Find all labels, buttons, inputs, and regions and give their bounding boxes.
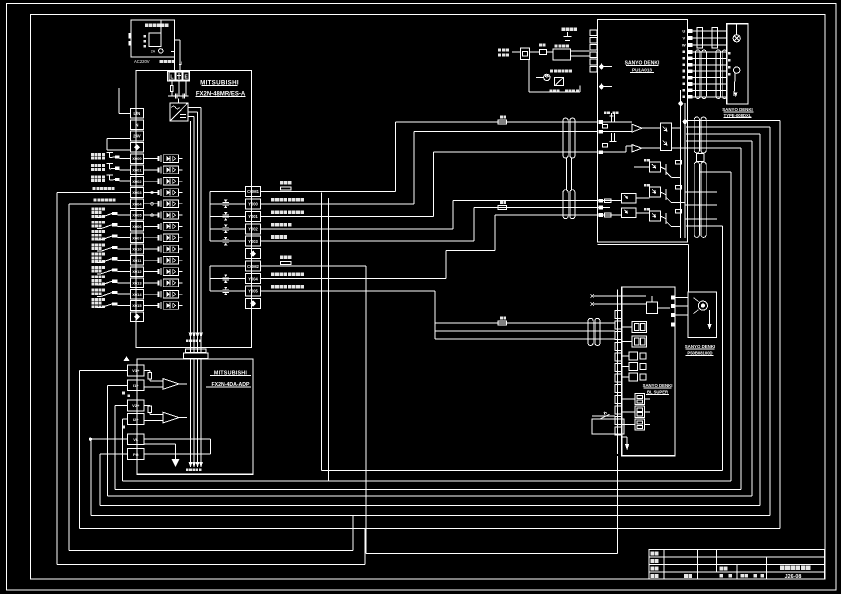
PLC input filter capacitors xyxy=(168,95,189,97)
servo motor box xyxy=(727,24,748,104)
wire analog common run xyxy=(90,439,92,515)
servo motor symbol xyxy=(733,35,740,42)
wire Y003 staircase xyxy=(261,240,474,242)
svg-text:P50B08100D: P50B08100D xyxy=(687,351,712,356)
wire DA ch2- run xyxy=(121,419,123,481)
output COM2 bus xyxy=(209,266,211,291)
wire Y002 staircase xyxy=(261,228,453,230)
PLC input terminal strip xyxy=(130,109,143,119)
PLC output terminal strip xyxy=(246,186,261,196)
svg-text:V2+: V2+ xyxy=(132,403,140,408)
wire 24V loop xyxy=(107,138,130,140)
title text date xyxy=(684,574,692,578)
interface right bus xyxy=(680,90,682,238)
label AC220 input xyxy=(498,49,509,52)
svg-text:Y001: Y001 xyxy=(248,214,258,219)
expansion bus labels bottom xyxy=(186,469,201,472)
wire COM2 down xyxy=(261,265,366,267)
amplifier A1 xyxy=(163,379,179,390)
svg-text:N: N xyxy=(135,122,138,127)
svg-text:X007: X007 xyxy=(132,235,142,240)
circuit breaker QF box xyxy=(131,20,175,57)
title text sheet no xyxy=(720,574,723,577)
breaker inner contact box xyxy=(149,33,161,46)
spindle feed wires top xyxy=(594,295,647,297)
svg-text:X012: X012 xyxy=(132,269,142,274)
svg-text:AC220V: AC220V xyxy=(134,59,150,64)
svg-text:X000: X000 xyxy=(132,156,142,161)
svg-text:X011: X011 xyxy=(132,258,142,263)
spindle control box xyxy=(646,302,657,314)
motor ground arrow xyxy=(735,93,737,96)
expansion unit FX2N-4AD box xyxy=(137,359,253,474)
title text drawing name xyxy=(780,565,811,570)
expansion cell connector xyxy=(136,445,138,449)
terminal L xyxy=(169,72,175,80)
breaker output wires xyxy=(175,39,181,41)
expansion ground xyxy=(172,460,178,466)
wire breaker to PLC terminals xyxy=(173,51,175,71)
svg-text:X015: X015 xyxy=(132,303,142,308)
opto-coupler input X row 5 xyxy=(143,211,182,219)
fan capacitor xyxy=(555,78,564,86)
encoder symbol xyxy=(734,67,740,73)
svg-text:L/N: L/N xyxy=(134,111,141,116)
svg-text:2A: 2A xyxy=(151,50,156,54)
interface input pins lower xyxy=(598,199,603,203)
svg-text:Y003: Y003 xyxy=(248,239,258,244)
spindle terminal strip xyxy=(615,311,622,319)
resistor R-A1 xyxy=(148,373,151,379)
interface box bottom wires xyxy=(598,244,689,246)
svg-text:BL SUPER: BL SUPER xyxy=(647,389,668,394)
wire Y004 staircase xyxy=(261,278,446,280)
output surge suppressors group1 xyxy=(210,203,245,205)
PLC main unit FX2N-48MR box xyxy=(136,71,251,348)
encoder connector pins xyxy=(687,50,692,54)
right riser 2 xyxy=(730,172,732,481)
servo amplifier box xyxy=(598,20,688,243)
spindle motor symbol xyxy=(698,301,707,310)
interface input opto Y005 xyxy=(621,208,636,217)
expansion cell marks xyxy=(124,357,128,360)
terminal E xyxy=(183,72,189,80)
encoder cable shield 1 xyxy=(696,50,707,99)
interface top pins xyxy=(598,120,603,124)
PLC internal DC bus wires xyxy=(188,107,201,109)
interface opto dual xyxy=(661,123,672,150)
spindle relay rows xyxy=(629,352,638,360)
suppressor diode pair Y000 xyxy=(223,200,229,208)
svg-text:Y002: Y002 xyxy=(248,226,258,231)
terminal block L N E xyxy=(168,71,190,81)
svg-text:X014: X014 xyxy=(132,292,142,297)
interface output stubs through cable xyxy=(685,191,717,193)
breaker input terminals xyxy=(129,33,132,38)
opto-coupler input X row 9 xyxy=(143,257,182,265)
output block bottom risers xyxy=(321,193,323,471)
interface pin marks right xyxy=(644,159,650,162)
svg-text:X003: X003 xyxy=(132,190,142,195)
expansion bus labels xyxy=(186,340,201,343)
right riser 4 xyxy=(751,141,753,496)
svg-text:X002: X002 xyxy=(132,179,142,184)
wire Y000 to riser xyxy=(261,203,414,205)
servo amp terminal column xyxy=(590,30,597,36)
svg-text:X005: X005 xyxy=(132,213,142,218)
title text design xyxy=(651,552,659,556)
wire Y001 to riser xyxy=(261,215,434,217)
noise filter box xyxy=(521,48,530,60)
wire DA ch1+ run xyxy=(78,370,80,528)
breaker contact marks xyxy=(144,35,147,38)
opto-coupler input X row 13 xyxy=(143,302,182,310)
motor terminal letters xyxy=(728,52,731,55)
servo amp input diamonds xyxy=(599,64,603,69)
suppressor diode pair Y002 xyxy=(223,225,229,233)
breaker label xyxy=(145,24,168,27)
opto-coupler input X row 11 xyxy=(143,279,182,287)
spindle feedback loop xyxy=(592,419,624,434)
expansion terminal cells xyxy=(128,365,144,376)
expansion bus wires down xyxy=(190,358,192,466)
wire DA ch1- run xyxy=(106,385,108,496)
spindle ground xyxy=(626,437,628,445)
cable shield upper middle xyxy=(563,118,575,158)
right riser 7 xyxy=(779,121,781,529)
opto-coupler input X row 7 xyxy=(143,234,182,242)
svg-text:I2+: I2+ xyxy=(133,417,139,422)
svg-text:FG: FG xyxy=(133,452,139,457)
opto-coupler input X row 2 xyxy=(143,177,182,185)
svg-text:24V: 24V xyxy=(133,134,141,139)
svg-text:L: L xyxy=(170,75,173,81)
opto-coupler input X row 8 xyxy=(143,245,182,253)
power relay box K xyxy=(553,49,571,60)
opto transistor stage 2 xyxy=(650,187,661,197)
wire COM1 to riser xyxy=(261,190,396,192)
suppressor diode pair Y003 xyxy=(223,237,229,245)
servo amp UVW pins xyxy=(687,29,692,33)
wire PLC COM risers xyxy=(322,470,723,472)
opto-coupler input X row 0 xyxy=(143,155,182,163)
riser wires to servo cable top xyxy=(395,121,597,123)
junction dot analog common xyxy=(89,438,91,440)
opto-coupler input X row 6 xyxy=(143,223,182,231)
opto-coupler input X row 4 xyxy=(143,200,182,208)
terminal ground xyxy=(176,72,182,80)
label X004 servo alarm input xyxy=(96,203,130,205)
svg-text:Y005: Y005 xyxy=(248,289,258,294)
svg-text:TYPE-008DXL: TYPE-008DXL xyxy=(724,113,752,118)
svg-text:Y000: Y000 xyxy=(248,202,258,207)
label QF xyxy=(160,60,175,63)
expansion bus connector xyxy=(186,349,206,353)
amplifier A2 xyxy=(163,412,179,423)
spindle motor box xyxy=(688,292,717,337)
spindle opto row 1 xyxy=(632,322,646,333)
ferrite bead on Y005 wire xyxy=(498,321,507,325)
output row labels group2 xyxy=(271,273,304,277)
spindle drive box xyxy=(622,287,675,456)
title text review xyxy=(651,567,659,571)
label DC24V top xyxy=(562,28,577,31)
label FU caption xyxy=(550,90,560,93)
spindle block feed wires xyxy=(435,330,615,332)
svg-text:U: U xyxy=(682,29,685,34)
svg-text:SANYO DENKI: SANYO DENKI xyxy=(722,107,753,112)
ferrite bead on COM1 wire xyxy=(498,120,507,124)
svg-text:X010: X010 xyxy=(132,247,142,252)
output row labels group1 xyxy=(271,198,304,202)
svg-text:W: W xyxy=(682,43,686,48)
opto transistor stage 1 xyxy=(650,162,661,172)
fuse FU xyxy=(530,51,540,53)
opto-coupler input X row 1 xyxy=(143,166,182,174)
svg-text:X006: X006 xyxy=(132,224,142,229)
svg-text:V1+: V1+ xyxy=(132,368,140,373)
cable shield spindle xyxy=(588,318,600,345)
svg-text:VI-: VI- xyxy=(133,437,139,442)
spindle block bottom wire xyxy=(616,456,618,554)
svg-text:I1+: I1+ xyxy=(133,383,139,388)
switch contacts on X005-X015 xyxy=(117,214,130,216)
spindle opto row 2 xyxy=(632,336,646,347)
encoder cable shield 2 xyxy=(716,50,727,99)
svg-text:COM2: COM2 xyxy=(247,264,260,269)
right riser 3 xyxy=(740,148,742,490)
label X003 mode select xyxy=(96,192,130,194)
svg-text:J26-08: J26-08 xyxy=(785,574,802,580)
suppressor diode pair Y001 xyxy=(223,212,229,220)
interface amplifier channel 2 xyxy=(603,151,626,153)
ferrite bead on Y003 wire xyxy=(498,206,507,210)
svg-text:COM1: COM1 xyxy=(247,189,260,194)
proximity sensors on X000-X002 xyxy=(120,158,131,160)
svg-text:V: V xyxy=(682,36,685,41)
wire X004 run xyxy=(69,203,131,205)
wires to spindle motor xyxy=(675,297,688,299)
title text check xyxy=(651,559,659,563)
wire FG run xyxy=(99,454,101,506)
interface small resistors xyxy=(605,199,611,203)
expansion common cell wires xyxy=(144,438,211,440)
pin labels above interface caps xyxy=(604,112,610,115)
svg-text:X004: X004 xyxy=(132,201,142,206)
wire DA ch2+ run xyxy=(114,405,116,489)
svg-text:SANYO DENKI: SANYO DENKI xyxy=(643,383,673,388)
svg-text:Y004: Y004 xyxy=(248,276,258,281)
label DC24V group1 xyxy=(280,181,291,184)
wire X003 run xyxy=(57,192,130,194)
cable neck middle xyxy=(566,158,568,190)
suppressor diode pair Y004 xyxy=(223,274,229,282)
svg-text:X013: X013 xyxy=(132,281,142,286)
cable shield encoder upper xyxy=(694,117,706,153)
wires relay to drive xyxy=(571,50,590,52)
spindle lower relay stages xyxy=(635,393,645,404)
output surge suppressors group2 xyxy=(210,278,245,280)
cable shield lower middle xyxy=(563,190,575,219)
connector box between cables xyxy=(697,154,705,162)
title text scale xyxy=(651,574,659,578)
suppressor diode pair Y005 xyxy=(223,287,229,295)
interface amplifier channel 1 xyxy=(603,121,632,123)
svg-text:X001: X001 xyxy=(132,168,142,173)
wire Y005 down to spindle block xyxy=(261,290,435,292)
output COM1 bus xyxy=(209,191,211,241)
spindle right pins xyxy=(671,296,675,300)
title text sheet type xyxy=(720,567,728,571)
cable shield encoder lower xyxy=(694,162,706,237)
svg-text:SANYO DENKI: SANYO DENKI xyxy=(685,344,716,349)
cooling fan motor xyxy=(544,74,550,80)
servo power cable marks xyxy=(697,28,703,49)
opto transistor stage 3 xyxy=(650,211,661,221)
spindle feedback switch xyxy=(592,415,615,417)
opto-coupler input X row 3 xyxy=(143,189,182,197)
fan wire loop xyxy=(536,76,544,78)
right riser 6 xyxy=(769,127,771,516)
opto-coupler input X row 12 xyxy=(143,290,182,298)
resistor R-A2 xyxy=(148,406,151,412)
svg-text:PU1A013: PU1A013 xyxy=(632,68,652,73)
spindle motor ground xyxy=(709,310,711,326)
title block table xyxy=(649,550,824,580)
PLC internal power input resistor xyxy=(171,86,174,92)
wire L/N stub xyxy=(119,112,130,114)
right riser 1 xyxy=(722,226,724,471)
opto-coupler input X row 10 xyxy=(143,268,182,276)
PLC AC/DC converter U-PS xyxy=(170,103,188,121)
label DC24V group2 xyxy=(280,256,291,259)
right riser 5 xyxy=(759,134,761,506)
interface input opto Y004 xyxy=(621,193,636,202)
